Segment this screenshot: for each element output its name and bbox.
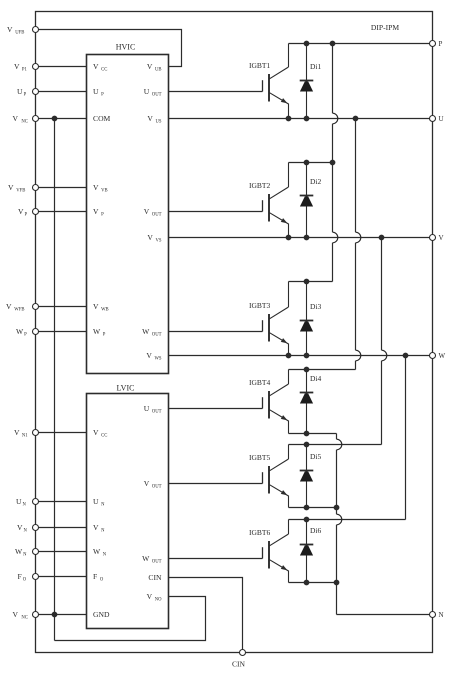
junction bus IGBT2 collector	[330, 160, 336, 166]
svg-text:LVIC: LVIC	[117, 384, 135, 393]
wire VN to LVIC VN	[36, 527, 87, 529]
junction Di5 anode	[304, 505, 310, 511]
wire V output line	[169, 237, 433, 239]
transistor IGBT5	[263, 445, 289, 508]
junction P rail Di1	[304, 41, 310, 47]
svg-text:CIN: CIN	[148, 573, 162, 582]
wire VNC to LVIC GND	[36, 614, 87, 616]
svg-text:IGBT6: IGBT6	[249, 528, 270, 537]
wire UP to HVIC UP	[36, 91, 87, 93]
junction Di3 cathode	[304, 279, 310, 285]
wire WN to LVIC WN	[36, 551, 87, 553]
junction U line bus	[353, 116, 359, 122]
junction Di2 anode on V line	[304, 235, 310, 241]
driver IC HVIC box	[87, 55, 169, 374]
wire IGBT5 collector node	[289, 444, 382, 446]
wire VUFB to HVIC VUB pin	[36, 30, 182, 67]
diode Di1	[300, 44, 314, 119]
diode Di5	[300, 445, 314, 508]
driver IC LVIC box	[87, 394, 169, 629]
wire N bus	[336, 434, 338, 440]
VVFB terminal	[33, 185, 39, 191]
VN terminal	[33, 525, 39, 531]
junction N bus IGBT6 emitter	[334, 580, 340, 586]
svg-text:W: W	[439, 352, 446, 360]
UP terminal	[33, 89, 39, 95]
wire IGBT4 emitter node	[289, 433, 337, 435]
svg-text:GND: GND	[93, 610, 110, 619]
wire VWFB to HVIC VWB	[36, 306, 87, 308]
wire UN to LVIC UN	[36, 501, 87, 503]
wire gate drive to IGBT5	[169, 483, 263, 485]
svg-text:U: U	[439, 115, 444, 123]
transistor IGBT2	[263, 163, 289, 238]
svg-text:Di5: Di5	[310, 452, 322, 461]
VNC terminal bottom	[33, 612, 39, 618]
wire IGBT6 emitter node	[289, 582, 337, 584]
svg-text:COM: COM	[93, 114, 111, 123]
wire IGBT5 emitter node	[289, 507, 337, 509]
wire VNC to HVIC COM	[36, 118, 87, 120]
svg-text:IGBT3: IGBT3	[249, 301, 270, 310]
junction Di3 anode on W line	[304, 353, 310, 359]
wire IGBT6 collector node	[289, 519, 406, 521]
junction Di1 anode on U line	[304, 116, 310, 122]
wire LVIC CIN to CIN terminal	[169, 578, 243, 653]
svg-text:Di2: Di2	[310, 177, 322, 186]
wire LVIC VNO return path	[55, 597, 206, 641]
svg-text:DIP-IPM: DIP-IPM	[371, 23, 400, 32]
wire VVFB to HVIC VVB	[36, 187, 87, 189]
VP1 terminal	[33, 64, 39, 70]
wire gate drive to IGBT2	[169, 211, 263, 213]
svg-text:V: V	[439, 234, 444, 242]
wire VP to HVIC VP	[36, 211, 87, 213]
svg-text:HVIC: HVIC	[116, 43, 136, 52]
diode Di4	[300, 370, 314, 434]
diode Di6	[300, 520, 314, 583]
wire IGBT3 collector node	[289, 281, 333, 283]
svg-text:IGBT1: IGBT1	[249, 61, 270, 70]
wire gate drive to IGBT1	[169, 91, 263, 93]
junction W line bus	[403, 353, 409, 359]
junction Di4 anode	[304, 431, 310, 437]
wire gate drive to IGBT6	[169, 558, 263, 560]
junction IGBT1 emitter on U line	[286, 116, 292, 122]
junction Di2 cathode	[304, 160, 310, 166]
wire P rail	[289, 43, 433, 45]
junction Di6 cathode	[304, 517, 310, 523]
wire bus U line to IGBT4 collector	[355, 119, 357, 233]
WN terminal	[33, 549, 39, 555]
P terminal	[430, 41, 436, 47]
wire WP to HVIC WP	[36, 331, 87, 333]
wire bus P to IGBT2/IGBT3 collectors	[332, 44, 334, 114]
wire gate drive to IGBT4	[169, 408, 263, 410]
svg-text:IGBT2: IGBT2	[249, 181, 270, 190]
diode Di3	[300, 282, 314, 356]
svg-text:Di1: Di1	[310, 62, 322, 71]
wire W output line	[169, 355, 433, 357]
junction Di6 anode	[304, 580, 310, 586]
transistor IGBT6	[263, 520, 289, 583]
U terminal	[430, 116, 436, 122]
diode Di2	[300, 163, 314, 238]
VN1 terminal	[33, 430, 39, 436]
wire bus W line to IGBT6 collector	[405, 356, 407, 520]
junction P rail bus	[330, 41, 336, 47]
svg-text:CIN: CIN	[232, 659, 246, 668]
junction IGBT2 emitter on V line	[286, 235, 292, 241]
svg-text:IGBT5: IGBT5	[249, 453, 270, 462]
VWFB terminal	[33, 304, 39, 310]
W terminal	[430, 353, 436, 359]
wire IGBT4 collector node	[289, 369, 356, 371]
wire IGBT2 collector node	[289, 162, 333, 164]
junction VNC bottom	[52, 612, 58, 618]
VNC terminal	[33, 116, 39, 122]
transistor IGBT3	[263, 282, 289, 356]
svg-text:Di3: Di3	[310, 302, 322, 311]
wire VNC bus vertical	[54, 119, 56, 641]
wire U output line	[169, 118, 433, 120]
transistor IGBT1	[263, 44, 289, 119]
transistor IGBT4	[263, 370, 289, 434]
junction Di5 cathode	[304, 442, 310, 448]
N terminal	[430, 612, 436, 618]
VP terminal	[33, 209, 39, 215]
WP terminal	[33, 329, 39, 335]
VUFB terminal	[33, 27, 39, 33]
V terminal	[430, 235, 436, 241]
CIN terminal	[240, 650, 246, 656]
junction N bus IGBT5 emitter	[334, 505, 340, 511]
junction V line bus	[379, 235, 385, 241]
svg-text:Di4: Di4	[310, 374, 322, 383]
svg-text:Di6: Di6	[310, 526, 322, 535]
wire Fo to LVIC Fo	[36, 576, 87, 578]
junction IGBT3 emitter on W line	[286, 353, 292, 359]
svg-text:N: N	[439, 611, 444, 619]
wire N line to N terminal	[337, 614, 433, 616]
svg-text:IGBT4: IGBT4	[249, 378, 270, 387]
wire bus V line to IGBT5 collector	[381, 238, 383, 351]
wire VN1 to LVIC VCC	[36, 432, 87, 434]
wire VP1 to HVIC VCC	[36, 66, 87, 68]
Fo terminal	[33, 574, 39, 580]
UN terminal	[33, 499, 39, 505]
svg-text:P: P	[439, 40, 443, 48]
junction VNC top	[52, 116, 58, 122]
junction Di4 cathode	[304, 367, 310, 373]
wire gate drive to IGBT3	[169, 331, 263, 333]
